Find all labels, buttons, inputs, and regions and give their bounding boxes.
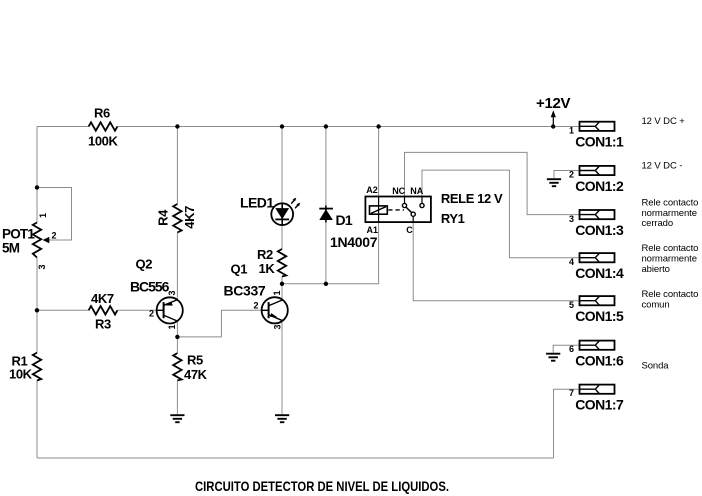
svg-text:R5: R5	[187, 353, 203, 368]
junction rail-R4	[175, 124, 179, 128]
svg-text:BC556: BC556	[130, 278, 170, 294]
resistor R4	[156, 204, 198, 233]
wire R5 to ground	[176, 381, 178, 415]
svg-text:3: 3	[569, 214, 574, 224]
transistor Q1	[224, 262, 288, 330]
wire riser to CON1:7	[554, 389, 580, 458]
svg-text:5M: 5M	[2, 241, 20, 256]
wire Q2 collector to Q1 base	[177, 310, 261, 337]
svg-text:POT1: POT1	[2, 227, 35, 242]
wire D1 to node row	[325, 222, 327, 284]
svg-text:7: 7	[569, 388, 574, 398]
wire relay C to CON1:5	[413, 222, 579, 301]
svg-text:1: 1	[38, 213, 48, 218]
svg-text:CON1:2: CON1:2	[575, 178, 624, 194]
svg-text:R6: R6	[94, 106, 110, 121]
svg-text:R3: R3	[95, 317, 111, 332]
connector CON1:4	[569, 253, 624, 281]
wire rail to D1	[325, 127, 327, 207]
svg-text:CON1:5: CON1:5	[575, 308, 624, 324]
svg-text:3: 3	[37, 264, 47, 269]
svg-text:2: 2	[52, 231, 57, 241]
svg-text:A1: A1	[367, 225, 379, 235]
wire POT1 to R1	[36, 258, 38, 353]
svg-text:normarmente: normarmente	[642, 253, 697, 264]
junction rail +12V	[551, 124, 555, 128]
ground under Q1	[275, 415, 289, 422]
junction rail-LED	[280, 124, 284, 128]
resistor R5	[173, 353, 207, 382]
svg-text:CON1:4: CON1:4	[575, 265, 624, 281]
svg-text:2: 2	[253, 300, 258, 310]
svg-text:comun: comun	[642, 299, 670, 310]
svg-text:CIRCUITO DETECTOR DE NIVEL DE: CIRCUITO DETECTOR DE NIVEL DE LIQUIDOS.	[195, 478, 449, 494]
wire relay NA to CON1:4	[422, 170, 580, 258]
junction D1 bottom node	[324, 282, 328, 286]
svg-text:Q2: Q2	[136, 256, 153, 271]
svg-text:abierto: abierto	[642, 264, 670, 275]
wire top rail left of R6	[37, 126, 89, 128]
svg-text:12 V DC +: 12 V DC +	[642, 116, 686, 127]
wire R4 to Q2	[176, 233, 178, 300]
svg-text:CON1:7: CON1:7	[575, 396, 624, 412]
wire relay NC to CON1:3	[405, 152, 580, 214]
svg-text:Rele contacto: Rele contacto	[642, 197, 699, 208]
resistor R6	[88, 106, 118, 149]
svg-text:CON1:3: CON1:3	[575, 222, 624, 238]
svg-text:100K: 100K	[88, 134, 118, 149]
junction POT top	[35, 185, 39, 189]
svg-text:LED1: LED1	[240, 195, 274, 211]
diode D1	[319, 206, 377, 251]
resistor R2	[257, 247, 286, 276]
svg-text:1: 1	[167, 324, 177, 329]
wire left vertical to POT1	[36, 127, 38, 223]
wire node row to relay A1	[282, 222, 379, 284]
connector CON1:2	[569, 166, 624, 194]
svg-text:1K: 1K	[259, 261, 276, 276]
svg-text:4K7: 4K7	[182, 206, 197, 229]
wire bottom rail	[37, 457, 554, 459]
wire Q2 to node and R5	[176, 321, 178, 353]
junction rail-D1	[324, 124, 328, 128]
connector CON1:7	[569, 385, 624, 413]
resistor R3	[89, 291, 118, 332]
svg-text:Rele contacto: Rele contacto	[642, 289, 699, 300]
wire rail to R4	[176, 127, 178, 205]
relay RY1	[365, 185, 503, 235]
svg-text:1: 1	[569, 126, 574, 136]
junction R3 node	[35, 308, 39, 312]
svg-text:Sonda: Sonda	[642, 360, 670, 371]
svg-text:4K7: 4K7	[91, 291, 114, 306]
junction R2 bottom node	[280, 282, 284, 286]
svg-text:47K: 47K	[184, 367, 208, 382]
svg-text:1N4007: 1N4007	[330, 234, 378, 250]
svg-text:4: 4	[569, 257, 574, 267]
wire rail to LED1	[281, 127, 283, 204]
svg-text:5: 5	[569, 300, 574, 310]
svg-text:RELE 12 V: RELE 12 V	[441, 191, 503, 206]
svg-text:Q1: Q1	[231, 262, 248, 277]
svg-text:A2: A2	[366, 185, 378, 195]
wire R3 to Q2 base	[118, 309, 157, 311]
svg-text:1: 1	[272, 290, 282, 295]
wire top rail right of R6	[117, 126, 579, 128]
wire CON1:6 to ground	[553, 345, 579, 352]
transistor Q2	[130, 256, 183, 329]
svg-text:CON1:1: CON1:1	[575, 134, 624, 150]
wire R2 to node	[281, 277, 283, 284]
connector CON1:3	[569, 210, 624, 238]
svg-text:RY1: RY1	[441, 211, 465, 226]
junction rail-A2	[376, 124, 380, 128]
svg-text:2: 2	[569, 170, 574, 180]
wire POT1 loop to wiper	[37, 188, 72, 241]
svg-text:10K: 10K	[9, 367, 33, 382]
svg-text:+12V: +12V	[536, 95, 571, 112]
connector CON1:5	[569, 296, 624, 324]
wire R1 to bottom rail	[36, 381, 38, 459]
wire R3 left	[37, 309, 89, 311]
svg-text:3: 3	[273, 324, 283, 329]
connector CON1:6	[569, 341, 624, 369]
wire LED1 to R2	[281, 225, 283, 249]
ground under R5	[170, 415, 184, 422]
wire CON1:2 to ground	[554, 171, 580, 179]
svg-text:C: C	[406, 225, 413, 235]
svg-text:12 V DC -: 12 V DC -	[642, 161, 683, 172]
svg-text:CON1:6: CON1:6	[575, 352, 624, 368]
svg-text:Rele contacto: Rele contacto	[642, 243, 699, 254]
ground at CON1:2	[547, 179, 561, 186]
svg-text:6: 6	[569, 344, 574, 354]
resistor R1	[9, 353, 41, 382]
svg-text:cerrado: cerrado	[642, 218, 674, 229]
svg-text:D1: D1	[336, 212, 353, 228]
wire rail to relay A2	[378, 127, 380, 197]
svg-text:NC: NC	[392, 186, 405, 196]
potentiometer POT1	[2, 213, 57, 270]
svg-text:3: 3	[167, 290, 177, 295]
wire Q1 collector	[281, 284, 283, 300]
LED LED1	[240, 195, 300, 226]
junction Q2 collector node	[175, 335, 179, 339]
svg-text:2: 2	[149, 309, 154, 319]
power +12V	[536, 95, 571, 127]
svg-text:BC337: BC337	[224, 282, 266, 298]
svg-text:NA: NA	[410, 186, 423, 196]
svg-text:R4: R4	[156, 209, 171, 226]
wire Q1 emitter to ground	[281, 321, 283, 414]
connector CON1:1	[569, 122, 624, 150]
ground at CON1:6	[546, 354, 560, 361]
svg-text:R2: R2	[257, 247, 273, 262]
